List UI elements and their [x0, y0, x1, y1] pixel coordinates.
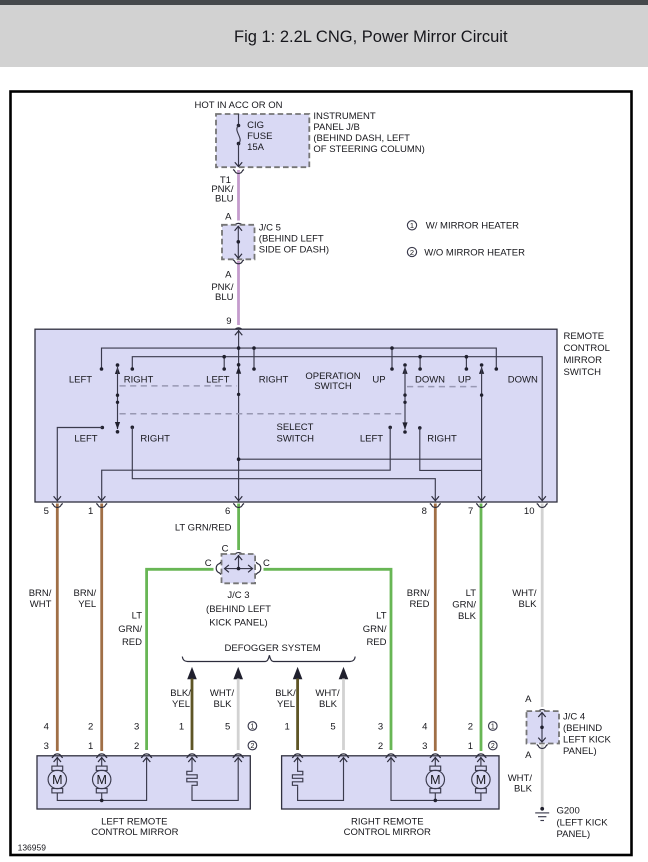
svg-text:C: C [205, 558, 212, 569]
svg-text:RIGHT: RIGHT [124, 374, 154, 385]
right mirror connectors [292, 754, 303, 758]
circled 1/2 left mirror [248, 722, 257, 751]
svg-text:WHT/: WHT/ [512, 588, 537, 599]
svg-text:10: 10 [524, 506, 535, 517]
left mirror entry arrows [54, 757, 196, 770]
wire motors common to green pin (right mirror) [391, 757, 481, 800]
wire bus A [102, 348, 497, 369]
svg-text:RED: RED [409, 599, 429, 610]
svg-text:DOWN: DOWN [415, 374, 445, 385]
wire select LEFT2 to pin 1 [102, 427, 391, 500]
svg-text:2: 2 [410, 248, 414, 257]
svg-text:GRN/: GRN/ [118, 624, 142, 635]
svg-text:KICK PANEL): KICK PANEL) [209, 617, 267, 628]
label select switch row [74, 422, 457, 445]
wiper 3 [402, 363, 407, 434]
label LEFT REMOTE CONTROL MIRROR [91, 816, 178, 838]
wire pin9 junction to pin 7 [239, 458, 482, 460]
svg-text:2: 2 [468, 721, 473, 732]
svg-text:7: 7 [468, 506, 473, 517]
wire LT GRN/RED J/C3 to right mirror [264, 569, 392, 750]
svg-text:FUSE: FUSE [247, 131, 272, 142]
remote control mirror switch box U1 [35, 329, 557, 502]
left remote control mirror box [37, 756, 250, 809]
defogger arrow BLK/YEL left [187, 667, 197, 679]
svg-text:1: 1 [88, 506, 93, 517]
wire BLK/YEL to right mirror [296, 679, 299, 751]
wire select LEFT1 to pin 5 [57, 428, 102, 501]
svg-text:CONTROL: CONTROL [564, 343, 610, 354]
contact RIGHT 2 [253, 348, 255, 369]
svg-text:(BEHIND: (BEHIND [563, 723, 602, 734]
svg-text:15A: 15A [247, 142, 265, 153]
svg-text:SELECT: SELECT [277, 422, 314, 433]
wiper 2 (on pin9 line) [236, 363, 241, 396]
wire LT GRN/BLK pin7 to right mirror [480, 504, 483, 752]
label J/C 5 [259, 223, 329, 256]
left mirror connectors [52, 754, 63, 758]
svg-text:WHT/: WHT/ [210, 688, 235, 699]
svg-text:GRN/: GRN/ [363, 624, 387, 635]
contact UP 1 [391, 348, 393, 369]
circled 1/2 right mirror [489, 722, 498, 751]
mechanical link wiper1-wiper2 [120, 385, 237, 387]
svg-text:A: A [525, 694, 532, 705]
legend circled 2 W/O MIRROR HEATER [407, 247, 525, 258]
connector T1 below fuse box [233, 170, 244, 174]
svg-text:6: 6 [225, 506, 230, 517]
svg-text:WHT/: WHT/ [508, 773, 533, 784]
motor M left/right adjust (left mirror) [48, 766, 66, 793]
svg-text:RED: RED [122, 637, 142, 648]
svg-text:2: 2 [88, 721, 93, 732]
svg-text:SWITCH: SWITCH [277, 433, 315, 444]
svg-text:3: 3 [422, 741, 427, 752]
switch bottom connectors [52, 504, 63, 508]
svg-text:BLK: BLK [319, 699, 338, 710]
svg-text:MIRROR: MIRROR [564, 355, 603, 366]
svg-text:WHT: WHT [30, 599, 52, 610]
svg-text:YEL: YEL [277, 699, 295, 710]
svg-text:BLK: BLK [514, 783, 533, 794]
svg-text:CONTROL MIRROR: CONTROL MIRROR [344, 827, 431, 838]
svg-text:RIGHT: RIGHT [427, 433, 457, 444]
svg-text:YEL: YEL [172, 699, 190, 710]
svg-text:RIGHT REMOTE: RIGHT REMOTE [351, 816, 424, 827]
svg-text:OF STEERING COLUMN): OF STEERING COLUMN) [313, 144, 424, 155]
svg-text:J/C 3: J/C 3 [227, 590, 249, 601]
wire pin9 to pin6 vertical [238, 330, 240, 501]
gray banner [0, 5, 648, 67]
contact DOWN 2 [495, 367, 499, 371]
heater element (left mirror) [187, 770, 197, 787]
svg-text:LEFT: LEFT [69, 374, 92, 385]
svg-text:2: 2 [134, 741, 139, 752]
svg-text:BLU: BLU [215, 292, 234, 303]
mechanical link wiper1-wiper3 [120, 413, 404, 415]
svg-text:136959: 136959 [18, 842, 47, 852]
motor M up/down adjust (right mirror) [426, 766, 444, 793]
svg-text:A: A [225, 269, 232, 280]
mechanical link wiper3-wiper4 [407, 386, 480, 388]
wire select RIGHT2 to wiper4 line [420, 428, 482, 471]
wire LT GRN/RED J/C3 to left mirror [147, 569, 214, 750]
wire WHT/BLK pin10 to J/C4 [541, 504, 544, 708]
svg-text:A: A [525, 750, 532, 761]
svg-text:1: 1 [491, 724, 495, 731]
svg-text:2: 2 [491, 743, 495, 750]
wire PNK/BLU fuse to J/C5 [237, 170, 240, 221]
contact LEFT 1 [100, 367, 104, 371]
defogger arrow WHT/BLK left [233, 667, 243, 679]
svg-text:LEFT REMOTE: LEFT REMOTE [101, 816, 167, 827]
contact LEFT 2 [223, 357, 225, 369]
svg-text:J/C 4: J/C 4 [563, 711, 585, 722]
defogger arrow BLK/YEL right [293, 667, 303, 679]
svg-text:BLK: BLK [519, 599, 538, 610]
svg-text:5: 5 [330, 721, 335, 732]
contact UP 2 [465, 357, 467, 369]
svg-text:3: 3 [44, 741, 49, 752]
svg-text:(BEHIND LEFT: (BEHIND LEFT [206, 604, 271, 615]
svg-text:SWITCH: SWITCH [564, 367, 602, 378]
svg-text:INSTRUMENT: INSTRUMENT [313, 111, 375, 122]
wire WHT/BLK J/C4 to ground [541, 745, 544, 807]
svg-text:PANEL): PANEL) [563, 746, 597, 757]
svg-text:1: 1 [468, 741, 473, 752]
svg-text:8: 8 [422, 506, 427, 517]
svg-text:HOT IN ACC OR ON: HOT IN ACC OR ON [195, 100, 283, 111]
svg-text:4: 4 [422, 721, 427, 732]
junction connector J/C5 [222, 225, 255, 259]
svg-text:1: 1 [410, 221, 414, 230]
svg-text:W/ MIRROR HEATER: W/ MIRROR HEATER [426, 221, 519, 232]
mirror pin numbers row 2 [44, 741, 473, 752]
svg-text:BRN/: BRN/ [407, 588, 430, 599]
svg-text:REMOTE: REMOTE [564, 331, 605, 342]
wiper 4 (continues to pin 7) [478, 363, 485, 500]
svg-text:(BEHIND DASH, LEFT: (BEHIND DASH, LEFT [313, 133, 410, 144]
defogger arrow WHT/BLK right [339, 667, 349, 679]
svg-text:1: 1 [250, 724, 254, 731]
wiper 1 [115, 363, 120, 433]
wire select RIGHT1 to pin 8 [132, 427, 435, 500]
svg-text:1: 1 [88, 741, 93, 752]
svg-text:LEFT: LEFT [360, 433, 383, 444]
svg-text:GRN/: GRN/ [452, 599, 476, 610]
svg-text:UP: UP [458, 374, 471, 385]
pin numbers [44, 506, 535, 517]
ground G200 [535, 807, 549, 821]
wire WHT/BLK to right mirror [342, 679, 345, 751]
wire BLK/YEL to left mirror [191, 679, 194, 751]
wire BRN/RED pin8 to right mirror [434, 504, 437, 752]
svg-text:LT GRN/RED: LT GRN/RED [175, 522, 232, 533]
svg-text:CONTROL MIRROR: CONTROL MIRROR [91, 827, 178, 838]
label G200 [557, 806, 609, 840]
svg-text:(BEHIND LEFT: (BEHIND LEFT [259, 234, 324, 245]
svg-text:BLK: BLK [214, 699, 233, 710]
svg-text:DOWN: DOWN [508, 374, 538, 385]
svg-text:2: 2 [378, 741, 383, 752]
label J/C 3 [206, 590, 271, 628]
svg-text:LEFT: LEFT [206, 374, 229, 385]
svg-text:LT: LT [376, 611, 387, 622]
heater element (right mirror) [292, 770, 302, 787]
svg-text:BLK/: BLK/ [275, 688, 296, 699]
junction connector J/C4 [537, 710, 548, 714]
instrument panel J/B box [216, 114, 309, 167]
defogger brace [182, 655, 355, 661]
wire motors common to green pin (left mirror) [57, 757, 146, 800]
motor M left/right adjust (right mirror) [472, 766, 490, 793]
svg-text:W/O MIRROR HEATER: W/O MIRROR HEATER [424, 247, 525, 258]
svg-text:WHT/: WHT/ [315, 688, 340, 699]
wire BRN/YEL pin1 to left mirror [100, 504, 103, 752]
svg-text:J/C 5: J/C 5 [259, 223, 281, 234]
top dark bar [0, 0, 648, 5]
contact DOWN 1 [419, 357, 421, 369]
wire LT GRN/RED pin6 to J/C3 [237, 504, 240, 551]
wire bus B [132, 357, 542, 501]
svg-text:9: 9 [226, 316, 231, 327]
svg-text:1: 1 [284, 721, 289, 732]
wire PNK/BLU J/C5 to switch [237, 261, 240, 325]
contact RIGHT 1 [131, 367, 135, 371]
svg-text:C: C [263, 558, 270, 569]
wire BRN/WHT pin5 to left mirror [56, 504, 59, 752]
junction pin9/busA [237, 346, 241, 350]
legend circled 1 W/ MIRROR HEATER [407, 221, 519, 232]
svg-text:5: 5 [44, 506, 49, 517]
svg-text:Fig 1: 2.2L CNG, Power Mirror: Fig 1: 2.2L CNG, Power Mirror Circuit [234, 28, 508, 46]
select switch contacts [101, 426, 105, 430]
svg-text:3: 3 [134, 721, 139, 732]
svg-text:DEFOGGER SYSTEM: DEFOGGER SYSTEM [225, 643, 321, 654]
right mirror entry arrows [294, 757, 485, 770]
label REMOTE CONTROL MIRROR SWITCH [564, 331, 610, 378]
label J/C 4 [563, 711, 612, 757]
svg-text:LEFT: LEFT [74, 433, 97, 444]
svg-text:RIGHT: RIGHT [259, 374, 289, 385]
svg-text:4: 4 [44, 721, 49, 732]
svg-text:UP: UP [372, 374, 385, 385]
svg-text:LT: LT [132, 611, 143, 622]
svg-text:BLK: BLK [458, 611, 477, 622]
label RIGHT REMOTE CONTROL MIRROR [344, 816, 431, 838]
svg-text:PANEL J/B: PANEL J/B [313, 122, 359, 133]
svg-text:LEFT KICK: LEFT KICK [563, 734, 612, 745]
svg-text:G200: G200 [557, 806, 580, 817]
fuse CIG FUSE 15A [235, 114, 273, 167]
svg-text:1: 1 [179, 721, 184, 732]
right remote control mirror box [282, 756, 499, 809]
motor M up/down adjust (left mirror) [93, 766, 111, 793]
svg-text:3: 3 [378, 721, 383, 732]
svg-text:SWITCH: SWITCH [314, 381, 352, 392]
wire heater to pin5 (right mirror) [298, 757, 344, 800]
svg-text:YEL: YEL [78, 599, 96, 610]
svg-text:BRN/: BRN/ [29, 588, 52, 599]
svg-text:RED: RED [366, 637, 386, 648]
svg-text:PANEL): PANEL) [557, 829, 591, 840]
label INSTRUMENT PANEL J/B [313, 111, 424, 155]
svg-text:2: 2 [250, 743, 254, 750]
svg-text:BLU: BLU [215, 194, 234, 205]
svg-text:BRN/: BRN/ [73, 588, 96, 599]
svg-text:A: A [225, 212, 232, 223]
mirror pin numbers row 1 [44, 721, 473, 732]
wire heater to pin5 (left mirror) [192, 757, 238, 800]
svg-text:RIGHT: RIGHT [140, 433, 170, 444]
wire WHT/BLK to left mirror [237, 679, 240, 751]
svg-text:CIG: CIG [247, 120, 264, 131]
label operation switch row [69, 371, 538, 392]
svg-text:(LEFT KICK: (LEFT KICK [557, 817, 609, 828]
junction connector J/C3 [233, 553, 244, 557]
svg-text:LT: LT [466, 588, 477, 599]
svg-text:C: C [222, 543, 229, 554]
svg-text:BLK/: BLK/ [170, 688, 191, 699]
svg-text:5: 5 [225, 721, 230, 732]
svg-text:SIDE OF DASH): SIDE OF DASH) [259, 245, 329, 256]
